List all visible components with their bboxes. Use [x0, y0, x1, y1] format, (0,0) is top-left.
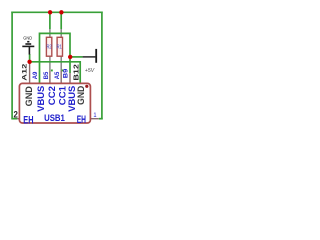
svg-text:+5V: +5V — [85, 68, 95, 74]
wire A9 hook — [40, 33, 71, 83]
pin A5 — [60, 70, 62, 83]
wire end dot B5 — [51, 70, 53, 72]
wire VBUS to +5V — [70, 56, 83, 58]
svg-text:B5: B5 — [44, 71, 50, 79]
resistor R2 — [46, 37, 51, 56]
wire GND symbol stub — [29, 54, 31, 62]
wire end dot A5 — [62, 70, 64, 72]
wire left EH stub — [12, 118, 17, 120]
pin A12 — [29, 62, 31, 83]
svg-text:A5: A5 — [55, 71, 61, 79]
wire left vertical — [11, 12, 13, 120]
wire top horizontal — [11, 11, 102, 13]
svg-text:GND: GND — [75, 85, 86, 104]
svg-text:B9: B9 — [63, 68, 69, 78]
svg-text:A9: A9 — [33, 71, 39, 79]
pin B9 — [69, 73, 71, 83]
wire GND bus — [30, 62, 81, 84]
svg-text:1: 1 — [93, 112, 96, 119]
svg-text:EH: EH — [23, 114, 33, 126]
svg-text:R2: R2 — [47, 44, 52, 50]
power +5V bar — [95, 49, 97, 63]
pin EH 2 stub — [17, 118, 20, 120]
anchor dot — [85, 85, 88, 88]
junction dot R1 top — [59, 10, 63, 14]
resistor R1 — [57, 37, 62, 56]
svg-text:CC2: CC2 — [46, 86, 57, 105]
pin R1 bottom lead — [60, 56, 62, 70]
pin R2 bottom lead — [49, 56, 51, 70]
connector USB1 body — [19, 83, 90, 123]
svg-text:R1: R1 — [57, 44, 62, 50]
svg-text:USB1: USB1 — [44, 113, 65, 123]
svg-text:GND: GND — [23, 35, 32, 41]
ground symbol — [22, 42, 34, 55]
wire right EH stub — [99, 118, 103, 120]
wire right vertical — [101, 12, 103, 120]
pin EH 1 stub — [90, 118, 98, 120]
svg-text:2: 2 — [14, 110, 18, 120]
junction dot A12 GND — [27, 60, 31, 64]
wire R2 top stub — [49, 12, 51, 29]
pin R2 top lead — [49, 29, 51, 38]
svg-text:B12: B12 — [74, 64, 81, 81]
junction dot B9 VBUS — [68, 55, 72, 59]
svg-text:EH: EH — [77, 114, 86, 126]
power +5V stem — [83, 56, 96, 58]
svg-text:GND: GND — [23, 86, 34, 107]
wire R1 top stub — [60, 12, 62, 29]
pin B5 — [49, 70, 51, 83]
junction dot R2 top — [48, 10, 52, 14]
svg-text:VBUS: VBUS — [35, 86, 46, 112]
svg-text:A12: A12 — [22, 63, 29, 81]
pin R1 top lead — [60, 29, 62, 38]
